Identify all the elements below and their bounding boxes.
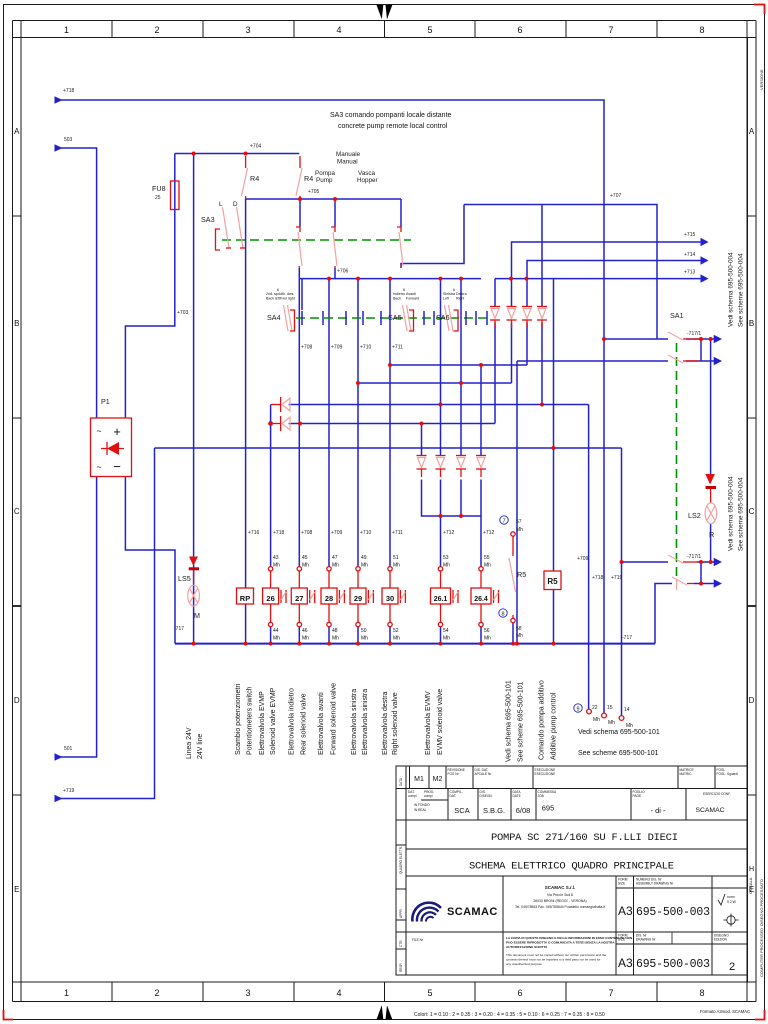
- relay terminal circles lower: [268, 622, 483, 626]
- relay 29: [350, 588, 373, 604]
- relay coil R5: [544, 571, 561, 590]
- svg-text:Mh: Mh: [273, 563, 280, 569]
- svg-text:EDIZION: EDIZION: [714, 938, 728, 942]
- svg-text:Mh: Mh: [332, 636, 339, 642]
- SA3 contact 3 blade: [331, 227, 337, 268]
- svg-text:Mh: Mh: [302, 636, 309, 642]
- svg-text:9: 9: [576, 707, 579, 713]
- svg-text:FOGL. Sguardi: FOGL. Sguardi: [717, 772, 739, 776]
- wire 503: [60, 148, 97, 418]
- svg-text:compl: compl: [408, 794, 417, 798]
- svg-text:Back left: Back left: [266, 297, 280, 301]
- svg-text:DISEGN.: DISEGN.: [480, 794, 493, 798]
- logo SCAMAC: [412, 903, 441, 922]
- svg-text:SIZE: SIZE: [618, 882, 625, 886]
- junction (193.6,643.6): [192, 642, 196, 646]
- arrow SA1 line2: [714, 357, 722, 365]
- svg-text:+718: +718: [63, 88, 74, 94]
- svg-text:Right: Right: [456, 297, 464, 301]
- wire LS2 channel: [710, 339, 712, 474]
- svg-text:Manual: Manual: [337, 159, 358, 166]
- SA1 mechanical link vertical: [676, 343, 678, 580]
- svg-text:+709: +709: [577, 556, 588, 562]
- wire diode8 riser: [480, 365, 482, 455]
- svg-text:+703: +703: [177, 310, 188, 316]
- relay terminal numbers lower: [273, 628, 491, 642]
- svg-text:Vasca: Vasca: [358, 170, 376, 177]
- wire SA1 line2: [517, 360, 668, 362]
- terminal circles 22 15 14: [587, 709, 624, 720]
- relay 26: [263, 588, 286, 604]
- junction (358,643.6): [356, 642, 360, 646]
- junction (553.5,643.6): [552, 642, 556, 646]
- svg-text:A3: A3: [618, 904, 633, 918]
- diode row2 d8: [476, 456, 486, 478]
- junction (245.6,643.6): [244, 642, 248, 646]
- diode pair horizontal d9: [271, 397, 290, 412]
- svg-text:MATRIC.: MATRIC.: [680, 772, 693, 776]
- contact R4 first: [242, 156, 248, 199]
- svg-text:26.1: 26.1: [434, 596, 448, 603]
- svg-text:8: 8: [699, 988, 704, 998]
- crossover y365: [390, 364, 527, 366]
- SA4 position labels: [266, 288, 295, 301]
- arrow +713: [701, 274, 709, 282]
- svg-text:DAT.: DAT.: [450, 794, 457, 798]
- SA3 mechanical link: [222, 239, 411, 241]
- svg-text:C: C: [14, 507, 20, 516]
- svg-text:SA3: SA3: [201, 215, 215, 224]
- svg-text:4: 4: [336, 25, 341, 35]
- junction (390,643.6): [388, 642, 392, 646]
- wire +713: [495, 278, 701, 280]
- svg-text:IN FONDO: IN FONDO: [414, 803, 430, 807]
- svg-text:Elettrovalvola destra: Elettrovalvola destra: [382, 691, 389, 755]
- svg-text:SA1: SA1: [670, 311, 684, 320]
- relay terminal red stubs upper: [271, 571, 481, 588]
- junction (270.6,423.5): [268, 421, 273, 426]
- svg-text:-717/1: -717/1: [687, 331, 701, 337]
- switch SA5: [403, 305, 414, 331]
- wire +715: [512, 242, 702, 279]
- svg-text:22: 22: [592, 705, 598, 711]
- svg-text:EVMV solenoid valve: EVMV solenoid valve: [437, 689, 444, 755]
- junction (421.5,423.5): [420, 422, 424, 426]
- svg-text:6/08: 6/08: [516, 806, 531, 815]
- svg-text:47: 47: [332, 555, 338, 561]
- svg-text:B: B: [14, 319, 19, 328]
- svg-text:DATA: DATA: [399, 777, 403, 786]
- junction (335,199): [333, 197, 337, 201]
- svg-text:Mh: Mh: [516, 633, 523, 639]
- svg-text:51: 51: [393, 555, 399, 561]
- arrow +715: [701, 238, 709, 246]
- svg-text:1: 1: [64, 25, 69, 35]
- wire FU8 chain: [174, 154, 176, 182]
- svg-text:56: 56: [484, 628, 490, 634]
- wire SA3 contact3 drop: [334, 199, 336, 227]
- crossover y383: [358, 382, 512, 384]
- diode row2 d5: [417, 456, 427, 478]
- fuse FU8: [171, 181, 180, 210]
- svg-text:24V line: 24V line: [197, 734, 204, 759]
- diode row1 d3: [522, 307, 532, 329]
- wire R4-1 channel RP: [245, 199, 247, 588]
- wire channel 28: [328, 279, 330, 567]
- junction (701,562): [699, 560, 703, 564]
- svg-text:APPR.: APPR.: [399, 908, 403, 918]
- svg-text:15: 15: [607, 705, 613, 711]
- wire line 583: [655, 584, 672, 644]
- relay 26.4: [471, 588, 499, 604]
- svg-text:52: 52: [393, 628, 399, 634]
- svg-text:Mh: Mh: [302, 563, 309, 569]
- junction (270.6,643.6): [269, 642, 273, 646]
- svg-text:SA3 comando pompanti locale di: SA3 comando pompanti locale distante: [330, 112, 452, 119]
- svg-text:AUTORIZZAZIONE SCRITTA: AUTORIZZAZIONE SCRITTA: [506, 945, 548, 949]
- lamp LS5: [188, 585, 200, 606]
- svg-text:55: 55: [484, 555, 490, 561]
- svg-text:C: C: [749, 507, 755, 516]
- svg-text:contents thereof must not be i: contents thereof must not be imparted to…: [506, 958, 600, 962]
- svg-text:6: 6: [517, 25, 522, 35]
- wire diode6 riser: [440, 279, 442, 455]
- svg-text:26: 26: [266, 594, 274, 603]
- relay 27: [291, 588, 314, 604]
- diode row1 d4: [537, 307, 547, 329]
- svg-text:43: 43: [273, 555, 279, 561]
- left strip dividers: [396, 844, 406, 846]
- svg-text:Mh: Mh: [443, 636, 450, 642]
- junction (542,404.5): [540, 403, 544, 407]
- svg-text:-717: -717: [622, 635, 632, 641]
- diode row2 d7: [456, 456, 466, 478]
- diode row2 d6: [436, 456, 446, 478]
- svg-text:DATE: DATE: [513, 794, 521, 798]
- svg-text:53: 53: [443, 555, 449, 561]
- svg-text:+706: +706: [337, 269, 348, 275]
- svg-text:Formato A3mod. SCAMAC: Formato A3mod. SCAMAC: [700, 1009, 750, 1014]
- svg-text:+713: +713: [684, 270, 695, 276]
- symbols cell: [718, 894, 739, 927]
- junction (621.5,562): [620, 560, 624, 564]
- svg-text:D: D: [749, 696, 755, 705]
- svg-text:48: 48: [332, 628, 338, 634]
- svg-text:~: ~: [96, 426, 101, 436]
- junction (300,423.5): [298, 422, 302, 426]
- wire LS5 channel upper: [193, 154, 195, 644]
- arrow line 562: [714, 558, 722, 566]
- svg-text:Sinistra: Sinistra: [443, 292, 455, 296]
- wire SA3 contact4 drop: [400, 199, 402, 227]
- svg-text:+712: +712: [443, 530, 454, 536]
- svg-text:26033 BRONI (REGGI' - VERONA): 26033 BRONI (REGGI' - VERONA): [533, 899, 586, 903]
- svg-text:14: 14: [624, 707, 630, 713]
- junction (440.5,643.6): [439, 642, 443, 646]
- svg-text:29: 29: [354, 594, 362, 603]
- svg-text:Via Prov.le Sud 8: Via Prov.le Sud 8: [547, 893, 573, 897]
- svg-text:6: 6: [403, 288, 405, 292]
- junction (390,278.6): [388, 277, 392, 281]
- svg-text:PUO ESSERE RIPRODOTTA O COMUNI: PUO ESSERE RIPRODOTTA O COMUNICATA A TER…: [506, 941, 615, 945]
- svg-text:Elettrovalvola EVMV: Elettrovalvola EVMV: [425, 691, 432, 755]
- svg-text:Avanti: Avanti: [406, 292, 416, 296]
- svg-text:Vedi schema 695-500-101: Vedi schema 695-500-101: [578, 729, 660, 736]
- svg-text:Back: Back: [393, 297, 401, 301]
- wire R5 contact bottom: [512, 623, 514, 644]
- svg-text:See scheme 695-500-101: See scheme 695-500-101: [578, 750, 659, 757]
- svg-text:6: 6: [517, 988, 522, 998]
- arrow +718: [55, 96, 63, 104]
- svg-text:SIZE: SIZE: [618, 938, 625, 942]
- svg-text:Mh: Mh: [593, 717, 600, 723]
- svg-text:2nd. spd.: 2nd. spd.: [266, 292, 281, 296]
- svg-text:+711: +711: [392, 530, 403, 536]
- junction (390,365): [388, 363, 392, 367]
- arrow +719: [55, 795, 63, 803]
- junction (329,278.6): [327, 277, 331, 281]
- svg-text:Mh: Mh: [332, 563, 339, 569]
- company address block: [515, 885, 605, 909]
- svg-text:7: 7: [502, 519, 505, 525]
- rotated channel function labels: [186, 680, 558, 762]
- svg-text:Vedi schema 695-500-101: Vedi schema 695-500-101: [506, 680, 513, 762]
- diode pair link: [270, 405, 272, 424]
- svg-text:28: 28: [325, 594, 333, 603]
- svg-text:FILE Nr: FILE Nr: [412, 938, 424, 942]
- svg-text:IN REAL: IN REAL: [414, 808, 427, 812]
- junction (553.5,448): [552, 446, 556, 450]
- wire +705: [246, 198, 401, 200]
- switch lower contact on 562: [668, 555, 697, 563]
- switch lower contact on 583: [672, 577, 694, 590]
- svg-text:4: 4: [336, 988, 341, 998]
- svg-text:+719: +719: [611, 575, 622, 581]
- junction (513,643.6): [511, 642, 515, 646]
- svg-text:8: 8: [699, 25, 704, 35]
- svg-text:See scheme 695-500-004: See scheme 695-500-004: [738, 477, 745, 551]
- svg-text:D: D: [233, 201, 238, 208]
- svg-text:7: 7: [608, 25, 613, 35]
- wire bus 448: [155, 447, 622, 449]
- relay RP: [237, 588, 254, 604]
- wire channel 30: [389, 279, 391, 567]
- svg-text:LS2: LS2: [688, 511, 701, 520]
- wire +714: [527, 261, 701, 279]
- svg-text:DRAWING Nr: DRAWING Nr: [636, 938, 656, 942]
- arrow +714: [701, 256, 709, 264]
- svg-text:SCAMAC S.r.l.: SCAMAC S.r.l.: [545, 885, 576, 890]
- svg-text:-717/1: -717/1: [687, 554, 701, 560]
- rotary switch fixed contact ticks: [302, 311, 487, 325]
- wire drop 589: [588, 405, 590, 710]
- svg-text:Elettrovalvola indietro: Elettrovalvola indietro: [289, 688, 296, 755]
- svg-text:+705: +705: [308, 189, 319, 195]
- svg-text:Rear solenoid valve: Rear solenoid valve: [301, 693, 308, 755]
- wire diode1 bottom to y424: [494, 323, 496, 424]
- svg-text:SCHEMA ELETTRICO QUADRO PRINCI: SCHEMA ELETTRICO QUADRO PRINCIPALE: [469, 861, 674, 873]
- LED LS5: [189, 557, 199, 585]
- row2 verticals: [447, 789, 449, 821]
- wire R5 coil channel: [553, 279, 555, 571]
- svg-text:Mh: Mh: [443, 563, 450, 569]
- svg-text:7: 7: [608, 988, 613, 998]
- wire +707: [464, 205, 657, 340]
- svg-text:norm: norm: [727, 895, 735, 899]
- SA3 contact 2 blade: [296, 227, 302, 268]
- junction (440.5,404.5): [439, 403, 443, 407]
- LED LS2: [705, 474, 716, 503]
- junction (461,516): [459, 514, 463, 518]
- svg-text:ESERCIZIO CONF.: ESERCIZIO CONF.: [703, 792, 731, 796]
- svg-text:A: A: [749, 127, 755, 136]
- svg-text:Colori: 1 = 0.10 : 2 = 0.35 :: Colori: 1 = 0.10 : 2 = 0.35 : 3 = 0.20 :…: [414, 1012, 605, 1018]
- arrow 503: [55, 144, 63, 152]
- SA6 position labels: [443, 288, 467, 301]
- wire channel 27: [298, 268, 300, 567]
- red corner mark top-right: [754, 5, 765, 15]
- svg-text:L: L: [219, 201, 223, 208]
- svg-text:Mh: Mh: [393, 563, 400, 569]
- svg-text:Vedi schema 695-500-004: Vedi schema 695-500-004: [728, 252, 735, 327]
- svg-text:695: 695: [542, 804, 555, 813]
- svg-text:~: ~: [96, 462, 101, 472]
- wire RP lower: [245, 604, 247, 644]
- svg-text:Elettrovalvola sinistra: Elettrovalvola sinistra: [351, 689, 358, 755]
- svg-text:Elettrovalvola sinistra: Elettrovalvola sinistra: [362, 689, 369, 755]
- junction (461,383): [459, 381, 463, 385]
- svg-text:See scheme 695-500-101: See scheme 695-500-101: [518, 681, 525, 762]
- wire diode4 riser: [541, 205, 543, 307]
- svg-text:OCCALA: OCCALA: [748, 877, 753, 894]
- svg-text:Tel. 045/78563 Fax. 045/785644: Tel. 045/78563 Fax. 045/785644 P.castell…: [515, 905, 605, 909]
- svg-text:+715: +715: [684, 232, 695, 238]
- relay 26.1: [431, 588, 459, 604]
- SA3 contact 4 blade: [397, 227, 403, 268]
- svg-text:P1: P1: [101, 397, 110, 406]
- svg-text:FOG Nr: FOG Nr: [448, 772, 460, 776]
- red corner mark bottom-right: [755, 1010, 765, 1020]
- centering mark triangle bottom: [377, 1005, 384, 1019]
- junction (710.6,562): [709, 560, 713, 564]
- svg-text:503: 503: [64, 137, 73, 143]
- svg-text:Left: Left: [443, 297, 449, 301]
- svg-text:FU8: FU8: [152, 184, 166, 193]
- svg-text:JOB: JOB: [538, 794, 544, 798]
- junction (440.5,278.6): [439, 277, 443, 281]
- svg-text:Pompa: Pompa: [315, 170, 335, 177]
- svg-text:+711: +711: [392, 345, 403, 351]
- wire channel 26.1: [440, 516, 442, 567]
- switch SA4: [284, 305, 295, 331]
- svg-text:concrete pump remote local con: concrete pump remote local control: [338, 123, 448, 130]
- coordinate numbers and letters: [64, 25, 705, 998]
- svg-text:APCALE Nr: APCALE Nr: [475, 772, 493, 776]
- svg-text:Scambio potenziometri: Scambio potenziometri: [235, 683, 242, 755]
- svg-text:M1: M1: [414, 776, 424, 783]
- svg-text:M2: M2: [433, 776, 443, 783]
- wire diode7 riser: [460, 279, 462, 455]
- junction (358,278.6): [356, 277, 360, 281]
- wire diode5 riser: [421, 424, 423, 456]
- svg-text:−: −: [113, 459, 121, 474]
- junction (511,278.6): [509, 277, 513, 281]
- arrow line 583: [714, 579, 722, 587]
- svg-text:compl: compl: [424, 794, 433, 798]
- svg-text:57: 57: [516, 519, 522, 525]
- svg-text:Hopper: Hopper: [357, 177, 378, 184]
- svg-text:SCAMAC: SCAMAC: [695, 807, 724, 814]
- svg-text:1: 1: [64, 988, 69, 998]
- svg-text:2: 2: [154, 988, 159, 998]
- junction (329,643.6): [327, 642, 331, 646]
- svg-text:Mh: Mh: [608, 720, 615, 726]
- svg-text:Right solenoid valve: Right solenoid valve: [392, 692, 399, 755]
- svg-text:Destra: Destra: [456, 292, 467, 296]
- switch SA1 contact 2: [668, 355, 699, 363]
- centering mark triangle top: [377, 5, 384, 19]
- svg-text:H: H: [749, 866, 754, 873]
- contact R5: [509, 532, 516, 623]
- svg-text:Indietro: Indietro: [393, 292, 405, 296]
- svg-text:LS5: LS5: [178, 574, 191, 583]
- svg-text:DISEGNO PROCESSATO: DISEGNO PROCESSATO: [759, 879, 764, 926]
- switch SA1 contact 1: [668, 332, 701, 340]
- row1 verticals: [409, 766, 411, 789]
- junction (358,383): [356, 381, 360, 385]
- rotated see-scheme labels right margin: [728, 252, 745, 551]
- right margin rotated notes: [748, 69, 764, 977]
- switch SA3: [216, 207, 246, 250]
- wire SA4 tick drop: [301, 279, 303, 310]
- arrow 501: [55, 753, 63, 761]
- junction (701,339): [699, 337, 703, 341]
- svg-text:Forward solenoid valve: Forward solenoid valve: [331, 683, 338, 755]
- svg-text:Mh: Mh: [273, 636, 280, 642]
- junction (604,339): [602, 337, 606, 341]
- diode row1 d2: [507, 307, 517, 329]
- svg-text:+710: +710: [360, 530, 371, 536]
- svg-text:Manuale: Manuale: [336, 151, 361, 158]
- row5/6 verticals: [502, 876, 504, 975]
- svg-text:R5: R5: [547, 577, 558, 586]
- junction (710.6,339): [709, 337, 713, 341]
- wire link 701: [700, 339, 702, 361]
- svg-text:+709: +709: [331, 345, 342, 351]
- title block row1 content: [414, 776, 442, 783]
- junction (526.5,278.6): [525, 277, 529, 281]
- svg-text:46: 46: [302, 628, 308, 634]
- crossover y404: [289, 404, 589, 406]
- svg-text:+712: +712: [483, 530, 494, 536]
- svg-text:Mh: Mh: [516, 527, 523, 533]
- junction (299.3,643.6): [297, 642, 301, 646]
- junction (461,278.6): [459, 277, 463, 281]
- svg-text:B: B: [749, 319, 754, 328]
- contact R4 second: [296, 156, 302, 199]
- svg-text:54: 54: [443, 628, 449, 634]
- svg-text:695-500-003: 695-500-003: [636, 958, 710, 971]
- svg-text:Additive pump control: Additive pump control: [551, 692, 558, 760]
- svg-text:+716: +716: [248, 530, 259, 536]
- svg-text:R4: R4: [304, 174, 313, 183]
- svg-text:+714: +714: [684, 252, 695, 258]
- svg-text:Potentiometers switch: Potentiometers switch: [247, 686, 254, 755]
- svg-text:R: R: [709, 530, 714, 539]
- wire +719: [60, 448, 155, 799]
- wire P1 minus down: [125, 477, 175, 644]
- wire SA3 contact2 drop: [299, 199, 301, 227]
